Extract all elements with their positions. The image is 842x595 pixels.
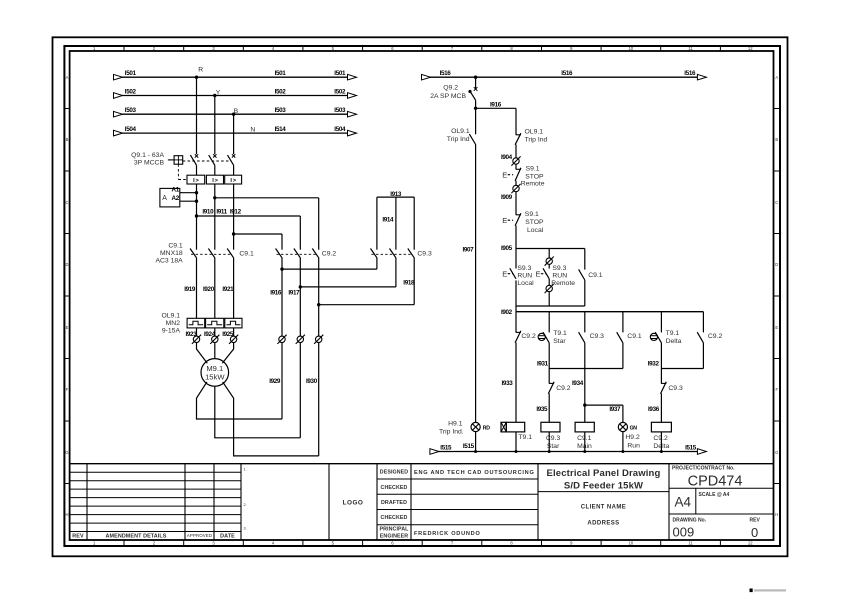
svg-text:C9.2: C9.2 <box>708 333 723 340</box>
push button S9.3 RUN Local <box>502 268 516 279</box>
svg-text:I501: I501 <box>334 70 346 77</box>
svg-text:I904: I904 <box>501 154 513 161</box>
rung4 contact C9.1 NO <box>617 312 623 343</box>
svg-text:I501: I501 <box>275 70 287 77</box>
svg-text:E: E <box>536 269 541 278</box>
svg-text:Remote: Remote <box>551 280 575 287</box>
svg-text:I916: I916 <box>490 102 502 109</box>
svg-text:12: 12 <box>748 46 753 51</box>
svg-text:A: A <box>66 75 69 80</box>
svg-text:H9.1: H9.1 <box>448 420 463 427</box>
svg-text:D: D <box>65 262 68 267</box>
svg-text:I503: I503 <box>275 107 287 114</box>
svg-text:E: E <box>66 325 69 330</box>
svg-text:CHECKED: CHECKED <box>381 485 408 491</box>
svg-text:1.: 1. <box>244 468 247 472</box>
terminal delta3 <box>316 336 322 342</box>
wire rung4 to link rail <box>622 343 624 369</box>
bus line I503 <box>114 107 357 117</box>
node Y <box>213 89 221 97</box>
label Q9.2 2A SP MCB <box>430 84 466 99</box>
svg-text:OL9.1: OL9.1 <box>161 312 180 319</box>
svg-text:OL9.1: OL9.1 <box>451 128 470 135</box>
svg-text:I504: I504 <box>125 126 137 133</box>
rung2 contact T9.1 Star <box>538 312 549 343</box>
outer border frame <box>53 37 788 556</box>
rung5 contact T9.1 Delta <box>650 312 661 343</box>
label C9.3 Star coil <box>546 435 561 450</box>
svg-text:E: E <box>502 170 507 179</box>
svg-text:A: A <box>162 195 167 202</box>
bus line I516 <box>422 70 707 80</box>
svg-text:I914: I914 <box>382 217 394 224</box>
ammeter A <box>160 187 198 207</box>
svg-text:I911: I911 <box>216 209 227 216</box>
label OL9.1 Trip Ind left <box>447 128 470 143</box>
delta feeder wires to links <box>282 342 319 456</box>
svg-text:I912: I912 <box>230 209 242 216</box>
amendment table <box>70 464 241 540</box>
wire I934 <box>584 343 586 423</box>
wire Y drop to MCCB <box>214 96 216 155</box>
svg-text:15kW: 15kW <box>205 373 225 382</box>
svg-text:I909: I909 <box>501 194 513 201</box>
svg-text:I935: I935 <box>536 406 548 413</box>
circuit breaker Q9.1 63A 3P MCCB <box>190 154 235 175</box>
svg-text:E: E <box>502 216 507 225</box>
contactor C9.1 main contacts <box>190 249 234 258</box>
svg-text:S9.3: S9.3 <box>517 265 531 272</box>
svg-text:I515: I515 <box>440 444 452 451</box>
top ruler ticks and numbers <box>124 46 720 51</box>
svg-text:LOGO: LOGO <box>343 500 364 507</box>
svg-text:Run: Run <box>627 442 640 449</box>
svg-text:I503: I503 <box>334 107 346 114</box>
svg-text:009: 009 <box>673 524 695 539</box>
svg-text:I502: I502 <box>334 88 346 95</box>
wire pole2 below breaker <box>214 184 216 250</box>
label S9.3 RUN Remote <box>551 265 575 287</box>
svg-text:3P MCCB: 3P MCCB <box>134 160 165 167</box>
node B <box>232 108 239 116</box>
rung2 contact C9.2 NC lower <box>549 382 554 384</box>
svg-text:I924: I924 <box>204 331 216 338</box>
svg-text:I929: I929 <box>269 378 281 385</box>
notes cell <box>244 464 330 540</box>
terminal pole1 <box>193 336 199 342</box>
wire C9.2 to neutral <box>660 432 662 452</box>
svg-text:F: F <box>66 387 69 392</box>
svg-text:I933: I933 <box>502 380 514 387</box>
svg-text:Trip Ind: Trip Ind <box>525 136 548 143</box>
wire C9.1 to neutral <box>584 432 586 452</box>
svg-text:MNX18: MNX18 <box>160 250 183 257</box>
svg-text:REV: REV <box>72 534 84 540</box>
wire pole1 branch to C9.2 pole2 <box>195 214 300 249</box>
link rail star <box>549 368 623 370</box>
designer table <box>377 464 538 540</box>
wire C9.2 pole3 to C9.3 pole3 junction <box>317 258 414 337</box>
drawing number cell <box>673 517 761 540</box>
svg-text:B: B <box>66 137 69 142</box>
wire I931 <box>548 343 550 384</box>
svg-text:I902: I902 <box>501 309 513 316</box>
svg-text:GN: GN <box>630 426 638 432</box>
svg-text:I913: I913 <box>390 191 402 198</box>
label Q9.1 63A 3P MCCB <box>131 152 164 167</box>
svg-text:REV: REV <box>750 517 761 523</box>
svg-text:I515: I515 <box>463 443 475 450</box>
wire pole3 below breaker <box>233 184 235 250</box>
svg-text:OL9.1: OL9.1 <box>525 128 544 135</box>
svg-text:9-15A: 9-15A <box>162 328 181 335</box>
inner border frame <box>70 51 774 540</box>
svg-text:C9.3: C9.3 <box>590 333 605 340</box>
bottom ruler ticks and numbers <box>124 540 720 546</box>
wire B drop to MCCB <box>233 114 235 154</box>
svg-text:I916: I916 <box>270 290 282 297</box>
svg-text:Y: Y <box>216 89 221 96</box>
terminal pole3 <box>230 336 236 342</box>
Q9.1 handle box <box>168 156 231 180</box>
label C9.2 Delta coil <box>653 435 669 450</box>
svg-text:N: N <box>250 126 255 133</box>
terminal above stop remote <box>513 158 519 164</box>
contactor coil C9.3 Star <box>541 422 560 432</box>
terminal below stop remote <box>513 185 519 191</box>
svg-text:I920: I920 <box>203 286 215 293</box>
contactor C9.3 star contacts <box>371 249 415 258</box>
svg-text:ENG AND TECH CAD OUTSOURCING: ENG AND TECH CAD OUTSOURCING <box>414 470 535 476</box>
svg-text:T9.1: T9.1 <box>518 434 532 441</box>
svg-text:H9.2: H9.2 <box>625 434 640 441</box>
svg-text:G: G <box>775 450 778 455</box>
label T9.1 Delta <box>666 330 682 345</box>
svg-text:FREDRICK ODUNDO: FREDRICK ODUNDO <box>414 531 481 537</box>
svg-text:Star: Star <box>553 338 566 345</box>
svg-text:C9.1: C9.1 <box>627 333 642 340</box>
svg-text:I501: I501 <box>125 70 137 77</box>
svg-text:G: G <box>65 450 68 455</box>
rung1 contact C9.2 NC <box>515 312 521 343</box>
wire I932 <box>660 343 662 384</box>
contactor C9.2 delta contacts <box>276 249 319 258</box>
svg-text:I921: I921 <box>222 286 234 293</box>
svg-text:RUN: RUN <box>517 273 532 280</box>
svg-text:Trip Ind.: Trip Ind. <box>439 428 464 435</box>
svg-text:H: H <box>775 512 778 517</box>
svg-text:STOP: STOP <box>525 173 544 180</box>
svg-text:11: 11 <box>688 46 693 51</box>
svg-text:10: 10 <box>629 46 634 51</box>
svg-text:PRINCIPAL: PRINCIPAL <box>379 527 409 533</box>
svg-text:B: B <box>775 137 778 142</box>
wires C9.1 to OL9.1 <box>197 258 234 319</box>
bus line I515 neutral <box>430 443 707 455</box>
motor return wire W2 <box>223 382 319 456</box>
svg-text:SCALE @ A4: SCALE @ A4 <box>699 492 730 498</box>
label C9.1 MNX18 AC3 18A <box>155 242 183 264</box>
svg-text:Local: Local <box>527 227 544 234</box>
svg-text:AC3 18A: AC3 18A <box>155 258 183 265</box>
label S9.3 RUN Local <box>517 265 534 287</box>
label H9.2 Run <box>625 434 640 449</box>
wire C9.3 to neutral <box>548 432 550 452</box>
svg-text:T9.1: T9.1 <box>553 330 567 337</box>
rung3 contact C9.3 NO <box>579 312 585 343</box>
svg-text:I516: I516 <box>684 70 696 77</box>
scale cell <box>669 488 774 514</box>
svg-text:I934: I934 <box>572 380 584 387</box>
right ruler ticks and letters <box>774 109 781 484</box>
svg-text:0: 0 <box>751 525 758 540</box>
svg-text:C9.3: C9.3 <box>417 251 432 258</box>
svg-text:PROJECT/CONTRACT No.: PROJECT/CONTRACT No. <box>672 465 735 471</box>
bus line I501 <box>114 70 357 80</box>
label OL9.1 MN2 9-15A <box>161 312 180 334</box>
svg-text:RD: RD <box>483 426 490 432</box>
wire pole2 branch to C9.2 pole3 <box>213 196 319 250</box>
svg-text:I932: I932 <box>648 361 660 368</box>
svg-text:C9.2: C9.2 <box>322 251 337 258</box>
svg-text:Electrical Panel Drawing: Electrical Panel Drawing <box>547 468 661 479</box>
svg-text:D: D <box>775 262 778 267</box>
svg-text:S9.1: S9.1 <box>526 166 540 173</box>
svg-text:2.: 2. <box>244 503 247 507</box>
terminal pole2 <box>212 336 218 342</box>
wire lamp to neutral <box>475 432 477 452</box>
svg-text:ENGINEER: ENGINEER <box>380 534 409 540</box>
motor return wire V2 <box>215 386 300 438</box>
wire T9.1 to neutral <box>515 432 517 452</box>
svg-text:DRAFTED: DRAFTED <box>381 500 407 506</box>
svg-text:I503: I503 <box>125 107 137 114</box>
svg-text:A1: A1 <box>172 187 180 194</box>
wire R drop to MCCB <box>196 77 198 154</box>
wire C9.2 pole1 to C9.3 pole1 junction <box>280 258 377 337</box>
svg-text:DESIGNED: DESIGNED <box>380 470 409 476</box>
middle border frame <box>64 46 780 546</box>
parallel branch top rail <box>516 249 585 270</box>
lamp branch node <box>583 403 586 406</box>
svg-text:A: A <box>775 75 778 80</box>
lamp stub wire I937 <box>585 405 623 422</box>
svg-text:Q9.2: Q9.2 <box>443 84 458 91</box>
wire I916 branch <box>474 107 516 135</box>
drawing title cell <box>538 464 669 540</box>
svg-text:I905: I905 <box>501 245 513 252</box>
wire I933 <box>515 343 517 423</box>
svg-text:I910: I910 <box>202 209 214 216</box>
svg-text:H: H <box>65 512 68 517</box>
svg-text:I504: I504 <box>334 126 346 133</box>
motor feed wires <box>197 342 234 363</box>
svg-text:R: R <box>198 67 203 74</box>
svg-text:Remote: Remote <box>521 181 545 188</box>
junction dots neutral <box>474 450 663 453</box>
svg-text:I919: I919 <box>184 286 196 293</box>
svg-text:I918: I918 <box>403 279 415 286</box>
contactor coil C9.1 Main <box>575 422 594 432</box>
svg-text:I514: I514 <box>275 126 287 133</box>
wire I935 <box>548 393 550 422</box>
terminal delta1 <box>279 336 285 342</box>
link rail delta <box>661 368 703 370</box>
push button S9.1 STOP Remote <box>502 168 521 181</box>
svg-text:CPD474: CPD474 <box>688 473 743 489</box>
overload relay OL9.1 <box>187 318 242 328</box>
svg-text:F: F <box>776 387 779 392</box>
project number cell <box>669 465 774 489</box>
svg-text:3.: 3. <box>244 527 247 531</box>
svg-text:Delta: Delta <box>666 338 682 345</box>
svg-text:DATE: DATE <box>220 534 235 540</box>
label S9.1 STOP Local <box>525 211 544 234</box>
label S9.1 STOP Remote <box>521 166 545 188</box>
label OL9.1 Trip Ind right <box>525 128 548 143</box>
svg-text:C9.1: C9.1 <box>168 242 183 249</box>
wire pole1 below breaker <box>196 184 198 250</box>
timer coil T9.1 <box>501 422 525 432</box>
svg-text:A2: A2 <box>172 195 180 202</box>
svg-text:Trip Ind: Trip Ind <box>447 136 470 143</box>
svg-text:I923: I923 <box>186 331 198 338</box>
svg-text:STOP: STOP <box>525 219 544 226</box>
contact C9.1 latch <box>579 269 585 280</box>
parallel branch bottom rail <box>516 280 585 311</box>
bus line I504 <box>114 126 357 136</box>
svg-text:ADDRESS: ADDRESS <box>587 521 619 527</box>
motor M9.1 15kW <box>201 359 229 387</box>
rung6 contact C9.2 NO <box>697 312 703 343</box>
svg-text:CHECKED: CHECKED <box>381 515 408 521</box>
wire pole3 branch to C9.2 pole1 <box>232 232 282 249</box>
bus line I502 <box>114 88 357 98</box>
svg-text:CLIENT NAME: CLIENT NAME <box>581 505 626 511</box>
svg-text:I502: I502 <box>275 88 287 95</box>
svg-text:I937: I937 <box>609 406 621 413</box>
svg-text:I925: I925 <box>222 331 234 338</box>
svg-text:S9.1: S9.1 <box>525 211 539 218</box>
svg-text:MN2: MN2 <box>166 320 181 327</box>
svg-text:12: 12 <box>748 541 753 546</box>
svg-text:C9.1: C9.1 <box>588 272 603 279</box>
svg-text:2A SP MCB: 2A SP MCB <box>430 93 466 100</box>
label H9.1 Trip Ind <box>439 420 464 435</box>
label C9.1 Main coil <box>577 435 592 450</box>
svg-text:11: 11 <box>688 541 693 546</box>
contact OL9.1 trip indication right <box>516 134 521 136</box>
wire to terminal <box>515 145 517 158</box>
contactor coil C9.2 Delta <box>651 422 671 432</box>
star point bridge of C9.3 <box>377 197 414 250</box>
svg-text:C: C <box>65 200 68 205</box>
left ruler ticks and letters <box>64 109 69 484</box>
watermark mark bottom right <box>750 589 753 593</box>
lamp H9.2 Run <box>618 422 627 431</box>
svg-text:C9.2: C9.2 <box>556 385 571 392</box>
node R <box>195 67 203 79</box>
push button S9.1 STOP Local <box>502 213 521 226</box>
svg-text:DRAWING No.: DRAWING No. <box>673 517 707 523</box>
svg-text:I516: I516 <box>440 70 452 77</box>
svg-text:C9.2: C9.2 <box>653 435 668 442</box>
svg-text:S/D Feeder 15kW: S/D Feeder 15kW <box>564 481 643 492</box>
svg-text:C9.2: C9.2 <box>521 333 536 340</box>
svg-text:APPROVED: APPROVED <box>187 533 212 538</box>
breaker Q9.2 2A SP MCB <box>468 76 477 109</box>
svg-text:I930: I930 <box>306 378 318 385</box>
svg-text:I907: I907 <box>462 246 474 253</box>
svg-text:C9.1: C9.1 <box>239 251 254 258</box>
wire I907 <box>475 144 477 422</box>
svg-text:I931: I931 <box>537 361 549 368</box>
wire lamp to neutral <box>622 432 624 452</box>
svg-text:Q9.1 - 63A: Q9.1 - 63A <box>131 152 164 159</box>
terminal above run remote <box>546 258 552 264</box>
motor return wire U2 <box>197 382 283 419</box>
svg-text:I917: I917 <box>288 290 300 297</box>
svg-text:I502: I502 <box>125 88 137 95</box>
logo cell <box>343 464 377 540</box>
svg-text:E: E <box>502 269 507 278</box>
terminal delta2 <box>297 336 303 342</box>
wire rung6 to link rail <box>702 343 704 369</box>
wires OL to motor terminals <box>197 328 234 337</box>
contact OL9.1 trip indication left <box>469 108 475 144</box>
svg-text:E: E <box>775 325 778 330</box>
svg-text:A4: A4 <box>675 495 692 510</box>
push button S9.3 RUN Remote <box>536 268 550 279</box>
svg-text:C9.3: C9.3 <box>668 385 683 392</box>
svg-text:AMENDMENT DETAILS: AMENDMENT DETAILS <box>106 534 167 540</box>
svg-text:I515: I515 <box>685 444 697 451</box>
wire I936 <box>660 393 662 422</box>
label T9.1 Star <box>553 330 567 345</box>
svg-text:Local: Local <box>517 280 534 287</box>
svg-text:T9.1: T9.1 <box>666 330 680 337</box>
svg-text:S9.3: S9.3 <box>552 265 566 272</box>
svg-text:RUN: RUN <box>552 273 567 280</box>
wire C9.2 pole2 to C9.3 pole2 junction <box>299 258 396 337</box>
title block outline <box>70 463 774 465</box>
terminal below run remote <box>546 285 552 291</box>
lamp H9.1 Trip Ind <box>471 422 480 431</box>
svg-text:10: 10 <box>629 541 634 546</box>
bus I902 <box>516 311 703 313</box>
svg-text:C9.3: C9.3 <box>546 435 561 442</box>
svg-text:I516: I516 <box>561 70 573 77</box>
thermal units I> of Q9.1 <box>187 175 242 184</box>
rung5 contact C9.3 NC <box>661 382 666 384</box>
svg-text:I936: I936 <box>648 406 660 413</box>
svg-text:C: C <box>775 200 778 205</box>
